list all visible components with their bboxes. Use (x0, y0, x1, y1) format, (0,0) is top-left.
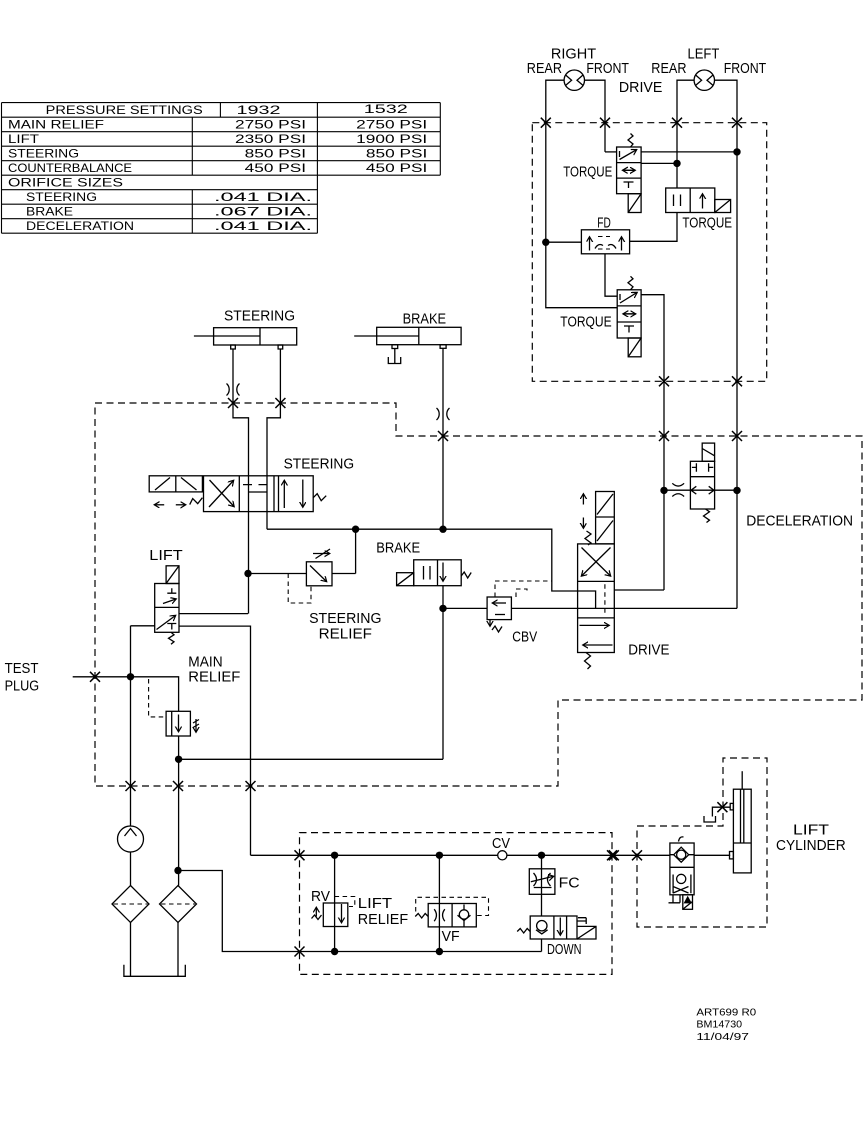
lift control dashed box (300, 833, 613, 975)
brake cylinder port (440, 345, 446, 349)
motor LEFT (694, 70, 714, 90)
svg-text:1532: 1532 (364, 102, 409, 116)
svg-text:2750 PSI: 2750 PSI (235, 118, 306, 132)
steering valve left cell cross arrows (209, 481, 234, 508)
brake cylinder vent port (392, 345, 398, 349)
lift valve body (155, 584, 179, 633)
VF valve body (428, 904, 476, 927)
X test plug port (90, 672, 100, 682)
torque valve 2 blocked cell (674, 195, 681, 207)
svg-text:STEERING: STEERING (309, 611, 381, 627)
svg-text:LEFT: LEFT (688, 47, 720, 63)
wire decel valve right (715, 489, 737, 491)
port X left-rear (672, 118, 682, 128)
torque valve 1 mid cell arrows (623, 169, 636, 171)
svg-text:FD: FD (597, 216, 611, 232)
steering cylinder ports (231, 345, 236, 349)
steering cylinder wire left (233, 349, 249, 614)
svg-text:BRAKE: BRAKE (376, 541, 420, 557)
port X control box out (609, 850, 619, 860)
FC wire (541, 855, 543, 916)
VF check (459, 910, 468, 919)
brake valve spring (461, 572, 471, 578)
brake valve solenoid (397, 573, 414, 586)
brake valve flow cell arrow (442, 563, 444, 582)
svg-text:TORQUE: TORQUE (560, 315, 612, 331)
motor RIGHT (564, 70, 584, 90)
drive valve pilot arrows (582, 494, 584, 505)
svg-text:PRESSURE SETTINGS: PRESSURE SETTINGS (46, 103, 203, 117)
junction node VF return (436, 948, 443, 955)
junction dot decel right (733, 487, 740, 494)
port X drive out B (732, 376, 742, 386)
CV check circle (498, 851, 507, 860)
junction dot FD left (542, 239, 549, 246)
svg-text:RELIEF: RELIEF (188, 670, 240, 686)
wire right motor front (585, 80, 606, 152)
steering valve arrows (155, 504, 165, 506)
wire rear-right to torque3 (546, 242, 617, 308)
lift valve top cell (163, 588, 176, 603)
svg-text:ORIFICE SIZES: ORIFICE SIZES (8, 176, 123, 190)
junction dot steering supply (244, 570, 251, 577)
junction dot (733, 148, 740, 155)
lift cylinder rod (741, 771, 743, 789)
junction dot test plug (127, 673, 134, 680)
wire orifice to decel valve (664, 489, 690, 491)
junction dot at steering relief branch (352, 526, 359, 533)
steering valve spring right (313, 494, 326, 501)
svg-text:DRIVE: DRIVE (628, 643, 669, 659)
svg-text:1900 PSI: 1900 PSI (356, 132, 427, 146)
wire FD left (546, 241, 582, 243)
drive valve mid cell detail (578, 591, 596, 608)
svg-text:FC: FC (559, 876, 580, 892)
wire steering valve B down and right (267, 529, 578, 591)
RV relief valve (323, 903, 348, 927)
check valve lower cell (677, 874, 686, 883)
svg-text:REAR: REAR (527, 61, 562, 77)
svg-text:TORQUE: TORQUE (682, 216, 732, 232)
decel valve solenoid (702, 443, 714, 461)
VF wire (438, 855, 440, 951)
drive valve bottom cell arrows (580, 624, 610, 626)
junction dot at brake branch (439, 526, 446, 533)
brake cylinder (377, 327, 461, 344)
steering valve right cell arrows (279, 476, 285, 512)
wire FD bottom to torque3 (605, 254, 617, 296)
main relief pilot dashed (149, 679, 165, 717)
FD arrows (589, 237, 591, 251)
VF pilot dashed (416, 897, 489, 915)
torque valve 1 body (617, 147, 642, 194)
table grid (2, 103, 441, 234)
SECTION: controlbox (251, 833, 670, 975)
junction node RV feed (331, 852, 338, 859)
steering relief adjustment arrow (313, 553, 330, 555)
svg-text:850 PSI: 850 PSI (245, 147, 306, 161)
port X left-front (732, 118, 742, 128)
svg-text:ART699 R0: ART699 R0 (696, 1008, 756, 1019)
SECTION: bottomleft (112, 826, 542, 976)
X lift feed port (246, 781, 256, 791)
test plug wire (73, 677, 179, 712)
torque valve 1 solenoid (628, 194, 641, 213)
svg-text:.067 DIA.: .067 DIA. (214, 205, 312, 219)
wire left motor rear (677, 80, 694, 188)
lift cylinder dashed box (637, 758, 767, 927)
torque valve 2 arrow cell (702, 194, 704, 209)
svg-text:.041 DIA.: .041 DIA. (214, 190, 312, 204)
svg-text:MAIN: MAIN (188, 655, 222, 671)
SECTION: cylinders (194, 309, 461, 614)
DOWN valve flow cell arrow (559, 918, 561, 936)
junction dot decel left (660, 487, 667, 494)
svg-text:RELIEF: RELIEF (358, 912, 408, 928)
decel valve bottom cell double arrow (690, 486, 714, 494)
steering cylinder (214, 328, 297, 345)
svg-text:RV: RV (311, 889, 330, 905)
drive assembly dashed box (532, 123, 766, 382)
X pump port (126, 781, 136, 791)
SECTION: table (2, 102, 441, 233)
wire lift valve feed down (179, 626, 251, 855)
X decel port right (732, 431, 742, 441)
check valve top cell (677, 850, 686, 859)
steering cylinder wire right (267, 349, 280, 529)
tank (124, 965, 185, 977)
junction dot return (174, 867, 181, 874)
wire right motor rear (546, 80, 564, 242)
RV pilot dashed (335, 897, 355, 907)
decel valve spring (704, 509, 710, 523)
lift cylinder upper port (730, 803, 733, 810)
CBV valve (487, 597, 511, 620)
wire torque2 down to FD (630, 213, 677, 242)
svg-text:PLUG: PLUG (5, 679, 40, 695)
port X drive out A (659, 376, 669, 386)
filter right (160, 886, 197, 923)
SECTION: liftcyl (609, 758, 846, 1043)
holding valve pilot solenoid (683, 895, 693, 910)
junction node VF feed (436, 852, 443, 859)
X brake port (438, 431, 448, 441)
deceleration valve body (690, 461, 714, 509)
svg-text:DECELERATION: DECELERATION (26, 219, 134, 233)
wire main relief to tank line (178, 736, 180, 886)
DOWN valve solenoid (577, 918, 596, 939)
lift cylinder barrel (733, 789, 751, 873)
wires filters to tank (131, 923, 179, 977)
torque valve 3 body (617, 290, 641, 338)
X steering port left (228, 398, 238, 408)
junction node FC feed (538, 852, 545, 859)
drive valve bottom spring (585, 653, 591, 670)
svg-text:CBV: CBV (512, 630, 537, 646)
X bleed (717, 802, 727, 812)
SECTION: manifold (5, 398, 862, 886)
X return in (295, 947, 305, 957)
steering relief pilot dashed (288, 574, 311, 604)
junction node RV return (331, 948, 338, 955)
svg-text:BRAKE: BRAKE (26, 205, 73, 219)
torque valve 3 bottom cell plug (624, 326, 634, 333)
X tank port (173, 781, 183, 791)
svg-text:TORQUE: TORQUE (563, 165, 612, 181)
svg-text:450 PSI: 450 PSI (245, 161, 306, 175)
wire pump to filter (130, 852, 132, 886)
wire lift valve to steering junction (179, 613, 248, 615)
brake cylinder wire (442, 348, 444, 529)
svg-text:TEST: TEST (5, 661, 39, 677)
steering valve center cell (243, 485, 268, 492)
wire brake valve to drain (179, 586, 443, 760)
main relief valve (166, 711, 190, 736)
wire torque1 right to left-front line (641, 151, 737, 153)
wire to CBV (443, 607, 487, 609)
svg-text:REAR: REAR (651, 61, 686, 77)
svg-text:LIFT: LIFT (8, 132, 40, 146)
return wire to control box (178, 871, 542, 952)
wire left motor front (715, 80, 738, 608)
svg-text:BRAKE: BRAKE (403, 312, 447, 328)
holding valve block (670, 843, 694, 895)
orifice on steering line (227, 384, 240, 396)
manifold dashed outline (95, 403, 862, 786)
lift valve solenoid (166, 566, 179, 584)
bleed fitting (704, 807, 730, 822)
lift valve bottom cell (157, 616, 176, 630)
lift cylinder lower port (730, 852, 734, 859)
steering relief valve (306, 562, 332, 586)
svg-text:DRIVE: DRIVE (619, 80, 663, 96)
wire to torque valve 1 left port (605, 151, 617, 153)
svg-text:LIFT: LIFT (358, 896, 392, 912)
wire CBV out through drive valve (511, 607, 737, 609)
svg-text:STEERING: STEERING (26, 190, 97, 204)
VF spring (415, 914, 428, 919)
svg-text:.041 DIA.: .041 DIA. (214, 219, 312, 233)
lift valve spring (169, 632, 175, 644)
svg-text:DOWN: DOWN (547, 942, 582, 958)
torque valve 1 bottom cell plug (624, 182, 634, 188)
svg-text:850 PSI: 850 PSI (366, 147, 427, 161)
svg-text:2750 PSI: 2750 PSI (356, 118, 427, 132)
X decel port left (659, 431, 669, 441)
svg-text:STEERING: STEERING (8, 147, 79, 161)
svg-text:BM14730: BM14730 (696, 1020, 742, 1031)
drive valve top cell cross arrows (582, 548, 611, 577)
wire torque3 right down to deceleration (614, 295, 664, 590)
svg-text:450 PSI: 450 PSI (366, 161, 427, 175)
torque valve 1 spring (628, 134, 633, 148)
wire lift valve left (131, 626, 155, 826)
svg-text:STEERING: STEERING (284, 457, 355, 473)
drive valve pilot section (596, 492, 615, 544)
svg-text:FRONT: FRONT (586, 61, 629, 77)
junction dot brake drain (439, 605, 446, 612)
feed line (251, 854, 670, 856)
SECTION: motors (527, 47, 767, 609)
DOWN valve drain (541, 939, 543, 952)
svg-text:MAIN RELIEF: MAIN RELIEF (8, 118, 104, 132)
torque valve 3 mid cell arrows (623, 313, 636, 315)
torque valve 1 top cell arrow (620, 150, 637, 160)
X feed out (607, 850, 617, 860)
CBV pilot dashed (495, 581, 552, 597)
DOWN valve check cell (537, 921, 547, 931)
DOWN valve spring (517, 929, 530, 934)
brake valve blocked cell (424, 566, 431, 580)
flow divider FD body (581, 230, 629, 254)
svg-text:CYLINDER: CYLINDER (776, 838, 846, 854)
VF orifice (434, 909, 445, 921)
svg-text:FRONT: FRONT (724, 61, 767, 77)
svg-text:CV: CV (492, 836, 510, 852)
svg-text:RELIEF: RELIEF (319, 627, 373, 643)
RV wire (334, 855, 336, 951)
DOWN valve body (530, 916, 577, 939)
drive valve pilot spring (585, 531, 591, 545)
brake valve body (414, 560, 462, 586)
FC valve (529, 869, 555, 895)
svg-text:DECELERATION: DECELERATION (746, 514, 853, 530)
svg-text:STEERING: STEERING (224, 309, 295, 325)
svg-text:1932: 1932 (237, 103, 282, 117)
junction dot drain (175, 756, 182, 763)
svg-text:LIFT: LIFT (793, 823, 829, 839)
torque valve 3 top cell arrow (620, 293, 637, 304)
steering valve solenoid boxes (149, 476, 202, 492)
torque valve 3 spring (628, 276, 633, 290)
CBV spring arrow (489, 620, 491, 626)
decel valve top cell blocked ports (692, 463, 713, 472)
deceleration orifice (672, 483, 684, 496)
main relief adjustment (195, 719, 197, 732)
X steering port right (275, 398, 285, 408)
pump (118, 826, 144, 852)
SECTION: drivebox (532, 118, 766, 590)
junction dot (673, 160, 680, 167)
port X right-front (600, 118, 610, 128)
torque valve 3 solenoid (628, 338, 641, 357)
torque valve 2 body (666, 188, 715, 213)
filter left (112, 886, 149, 923)
port X lift cylinder in (632, 850, 642, 860)
svg-text:VF: VF (442, 929, 460, 945)
RV spring arrow (315, 908, 317, 917)
steering valve spring left (190, 498, 203, 505)
wire torque1 right to rear line (641, 162, 677, 164)
port X right-rear (541, 118, 551, 128)
FD orifices (595, 245, 616, 249)
wire block to cylinder (670, 854, 730, 857)
holding valve drain (669, 895, 681, 903)
svg-text:COUNTERBALANCE: COUNTERBALANCE (8, 161, 132, 175)
drive valve body (578, 544, 615, 653)
svg-text:11/04/97: 11/04/97 (696, 1032, 749, 1043)
X feed in (295, 850, 305, 860)
svg-text:2350 PSI: 2350 PSI (235, 132, 306, 146)
svg-text:LIFT: LIFT (149, 548, 183, 564)
wire to steering relief (248, 529, 356, 573)
steering valve body (204, 476, 314, 512)
orifice on brake line (437, 408, 450, 420)
torque valve 2 solenoid (715, 200, 731, 213)
